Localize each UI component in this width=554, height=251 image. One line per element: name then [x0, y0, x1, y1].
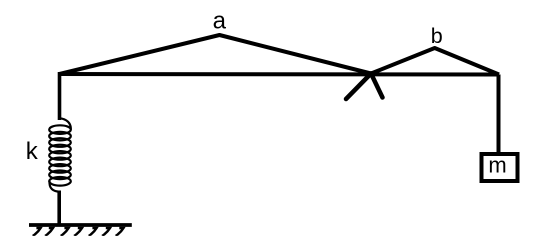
ground hatch 1: [33, 228, 41, 235]
ground hatch 2: [45, 228, 53, 235]
spring k coil: [49, 125, 71, 185]
truss triangle a: [60, 35, 372, 74]
ground hatch 7: [116, 228, 124, 235]
svg-text:k: k: [26, 138, 39, 165]
spring k top hook: [60, 118, 71, 129]
ground line: [29, 223, 132, 227]
ground hatch 6: [102, 228, 110, 235]
spring lower rod: [57, 191, 61, 226]
ground hatch 4: [74, 228, 82, 235]
pivot leg left: [346, 74, 371, 100]
svg-text:a: a: [213, 8, 227, 35]
right hanger wire: [497, 75, 501, 154]
spring k bottom hook: [50, 181, 60, 192]
left hanger wire: [58, 72, 62, 120]
ground hatch 3: [61, 228, 69, 235]
ground hatch 5: [89, 228, 97, 235]
svg-text:m: m: [488, 152, 506, 177]
pivot leg right: [371, 74, 383, 98]
truss triangle b: [371, 48, 499, 75]
beam bar: [60, 72, 500, 77]
svg-text:b: b: [431, 24, 443, 48]
mass box m: [482, 154, 518, 181]
